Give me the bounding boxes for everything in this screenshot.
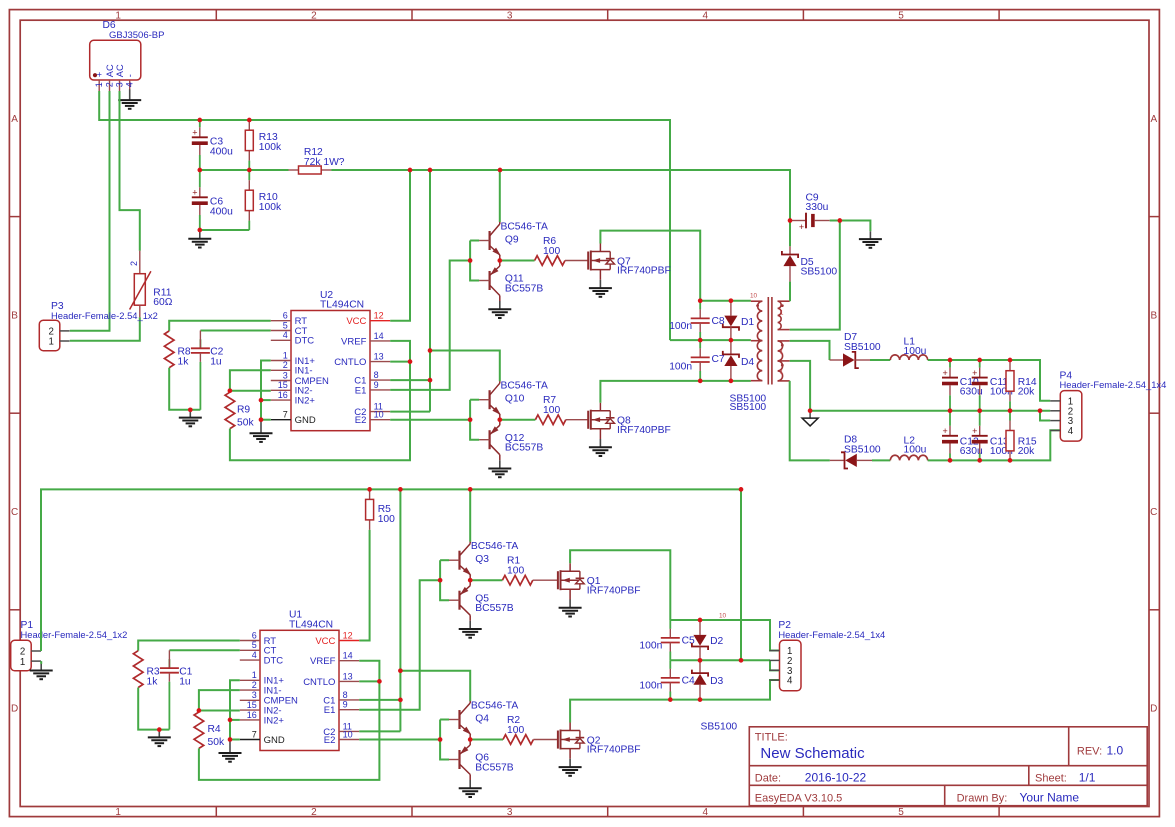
capacitor C7 [669, 340, 725, 381]
svg-text:DTC: DTC [264, 656, 284, 667]
svg-text:C4: C4 [682, 676, 695, 687]
ground at P1 pin 1 [30, 664, 53, 679]
C2 top pin wire [199, 331, 201, 349]
svg-text:100n: 100n [639, 640, 662, 651]
wire [789, 282, 791, 302]
svg-text:C5: C5 [682, 636, 695, 647]
wire [500, 260, 535, 262]
svg-text:6: 6 [252, 630, 257, 640]
svg-text:D: D [11, 704, 18, 715]
ground at Q1 source [559, 600, 582, 617]
wire [261, 361, 271, 420]
capacitor C13 [972, 411, 1013, 461]
junction [698, 379, 703, 384]
junction [729, 338, 734, 343]
junction [497, 258, 502, 263]
svg-text:SB5100: SB5100 [701, 721, 738, 732]
wire [390, 170, 410, 321]
svg-text:A: A [11, 114, 18, 125]
wire [230, 719, 240, 721]
junction [977, 408, 982, 413]
svg-text:50k: 50k [237, 417, 254, 428]
svg-text:IN2+: IN2+ [264, 715, 285, 726]
wire [600, 231, 700, 301]
junction [808, 408, 813, 413]
junction [197, 168, 202, 173]
junction [228, 737, 233, 742]
svg-text:REV:: REV: [1077, 745, 1102, 757]
svg-text:2016-10-22: 2016-10-22 [805, 770, 867, 784]
wire [570, 550, 670, 620]
ground at C6 [188, 231, 211, 248]
junction [729, 379, 734, 384]
svg-text:100: 100 [543, 405, 560, 416]
svg-text:SB5100: SB5100 [730, 402, 767, 413]
wire [440, 559, 449, 561]
svg-text:9: 9 [343, 700, 348, 710]
connector P1 (Header-Female 1x2) [11, 640, 41, 671]
wire [120, 91, 140, 251]
MOSFET Q2 (IRF740PBF) [558, 723, 641, 759]
svg-text:IRF740PBF: IRF740PBF [617, 266, 671, 277]
svg-text:8: 8 [343, 690, 348, 700]
svg-text:4: 4 [283, 330, 288, 340]
resistor R7 [535, 395, 565, 424]
wire [70, 317, 140, 340]
svg-text:D3: D3 [710, 676, 723, 687]
wire [99, 91, 670, 340]
capacitor C10 [942, 360, 983, 411]
wire [790, 381, 830, 461]
svg-text:4: 4 [125, 82, 135, 87]
junction [498, 168, 503, 173]
svg-text:GND: GND [264, 735, 285, 746]
svg-text:100n: 100n [669, 321, 692, 332]
junction [157, 727, 162, 732]
svg-text:4: 4 [1068, 426, 1074, 437]
svg-text:1: 1 [115, 807, 121, 818]
junction [788, 218, 793, 223]
junction [468, 487, 473, 492]
transformer T1 [750, 292, 790, 384]
svg-text:1: 1 [252, 670, 257, 680]
junction [259, 417, 264, 422]
wire [359, 580, 440, 710]
svg-text:1/1: 1/1 [1079, 770, 1096, 784]
junction [729, 298, 734, 303]
junction [259, 398, 264, 403]
svg-text:1u: 1u [179, 676, 191, 687]
ground at D6 pin 4 [118, 89, 141, 109]
net label 10 [719, 612, 727, 619]
svg-text:2: 2 [104, 82, 114, 87]
junction [837, 218, 842, 223]
junction [398, 487, 403, 492]
wire [429, 170, 431, 412]
wire [359, 739, 440, 741]
SB5100 labels for D1 D4 [730, 394, 767, 413]
svg-text:100n: 100n [639, 680, 662, 691]
wire [230, 390, 271, 392]
transistor Q6 (PNP BC557B) [449, 740, 514, 781]
diode D4 [723, 340, 755, 381]
wire [359, 680, 379, 682]
wire R1 to Q1 gate [533, 579, 558, 581]
junction [428, 168, 433, 173]
wire [740, 489, 742, 660]
svg-text:GND: GND [295, 415, 316, 426]
svg-text:100: 100 [507, 725, 524, 736]
svg-text:12: 12 [374, 311, 384, 321]
wire [499, 170, 501, 222]
svg-text:2: 2 [311, 807, 317, 818]
junction [1008, 408, 1013, 413]
svg-text:1.0: 1.0 [1107, 743, 1124, 757]
svg-text:Q3: Q3 [475, 554, 489, 565]
svg-text:E1: E1 [355, 385, 367, 396]
wire [390, 261, 470, 390]
junction [367, 487, 372, 492]
wire [230, 739, 240, 741]
wire [810, 410, 1050, 412]
svg-text:16: 16 [278, 390, 288, 400]
junction [428, 348, 433, 353]
junction [468, 578, 473, 583]
wire [390, 411, 430, 413]
svg-text:AC: AC [115, 64, 125, 77]
wire R6 to Q7 gate [565, 260, 588, 262]
junction [977, 358, 982, 363]
wire [440, 720, 449, 760]
ground at Q5 [459, 621, 482, 638]
wire [470, 739, 503, 741]
junction [398, 698, 403, 703]
connector P3 (Header-Female 1x2) [39, 320, 69, 351]
wire [928, 360, 1050, 401]
svg-text:Sheet:: Sheet: [1035, 772, 1067, 784]
svg-text:IN2+: IN2+ [295, 396, 316, 407]
svg-text:EasyEDA V3.10.5: EasyEDA V3.10.5 [755, 792, 842, 804]
svg-text:14: 14 [343, 651, 353, 661]
svg-text:SB5100: SB5100 [844, 444, 881, 455]
svg-text:Drawn By:: Drawn By: [957, 792, 1008, 804]
SB5100 label for D2 D3 [701, 721, 738, 732]
junction [468, 417, 473, 422]
junction [197, 228, 202, 233]
junction [398, 668, 403, 673]
wire [790, 221, 840, 330]
wire [261, 399, 271, 401]
junction [497, 417, 502, 422]
wire [169, 649, 239, 651]
signal ground at output mid-rail [802, 411, 818, 426]
svg-text:3: 3 [507, 10, 513, 21]
wire [230, 370, 271, 390]
svg-text:10: 10 [343, 729, 353, 739]
junction [408, 168, 413, 173]
svg-text:VREF: VREF [310, 656, 336, 667]
svg-text:E2: E2 [324, 735, 336, 746]
transistor Q4 (NPN BC546-TA) [449, 700, 518, 739]
resistor R5 [366, 489, 396, 530]
wire [928, 430, 1061, 460]
junction [228, 388, 233, 393]
junction [197, 118, 202, 123]
junction [377, 679, 382, 684]
diode D1 [723, 301, 755, 340]
wire [470, 400, 479, 440]
MOSFET Q7 (IRF740PBF) [588, 244, 671, 280]
svg-text:16: 16 [247, 710, 257, 720]
bridge rectifier D6 (GBJ3506-BP) [90, 20, 165, 91]
transistor Q10 (NPN BC546-TA) [479, 381, 548, 420]
svg-text:1: 1 [94, 82, 104, 87]
wire R7 to Q8 gate [566, 419, 588, 421]
junction [977, 458, 982, 463]
wire R2 to Q2 gate [533, 739, 558, 741]
IC U1 (TL494CN) [240, 610, 359, 751]
wire [400, 671, 470, 701]
wire [199, 661, 380, 780]
svg-text:B: B [11, 311, 18, 322]
capacitor C5 [639, 620, 695, 660]
svg-text:+: + [972, 368, 977, 378]
svg-text:CNTLO: CNTLO [303, 677, 335, 688]
resistor R12 [289, 147, 345, 174]
wire [331, 170, 790, 221]
wire [470, 399, 479, 401]
MOSFET Q1 (IRF740PBF) [558, 563, 641, 599]
svg-text:Header-Female-2.54_1x2: Header-Female-2.54_1x2 [51, 310, 158, 321]
resistor R15 [1006, 411, 1037, 461]
svg-text:2: 2 [129, 261, 139, 266]
wire [199, 690, 240, 710]
connector P2 (Header-Female 1x4) [769, 640, 801, 691]
svg-text:-: - [125, 74, 135, 77]
diode D5 (SB5100) [782, 246, 814, 281]
wire [469, 489, 471, 541]
D5 value label [801, 266, 838, 277]
svg-text:E1: E1 [324, 705, 336, 716]
wire [700, 300, 751, 302]
connector P4 (Header-Female 1x4) [1050, 391, 1082, 442]
ground at R8/C2 [179, 410, 202, 427]
P1 labels [21, 620, 128, 640]
svg-text:+: + [942, 368, 947, 378]
ground at Q7 source [589, 280, 612, 297]
svg-text:SB5100: SB5100 [801, 266, 838, 277]
junction [948, 358, 953, 363]
svg-text:15: 15 [247, 700, 257, 710]
svg-text:7: 7 [283, 410, 288, 420]
junction [228, 718, 233, 723]
junction [698, 298, 703, 303]
svg-text:Header-Female-2.54_1x4: Header-Female-2.54_1x4 [778, 629, 885, 640]
svg-text:D4: D4 [741, 357, 754, 368]
svg-text:100n: 100n [669, 362, 692, 373]
junction [948, 408, 953, 413]
wire [872, 459, 890, 461]
svg-text:Header-Female-2.54_1x2: Header-Female-2.54_1x2 [21, 629, 128, 640]
junction [438, 578, 443, 583]
wire [789, 221, 791, 247]
wire [359, 699, 400, 701]
wire [440, 719, 449, 721]
wire [261, 419, 271, 421]
transistor Q12 (PNP BC557B) [479, 420, 543, 461]
transistor Q5 (PNP BC557B) [449, 580, 514, 621]
wire [359, 730, 400, 732]
svg-text:9: 9 [374, 380, 379, 390]
ground at R3/C1 [148, 730, 171, 747]
capacitor C8 [669, 301, 725, 340]
wire [430, 351, 500, 382]
svg-text:TL494CN: TL494CN [320, 300, 364, 311]
svg-text:+: + [799, 222, 804, 232]
svg-text:IRF740PBF: IRF740PBF [587, 585, 641, 596]
resistor R14 [1006, 360, 1037, 411]
P4 labels [1060, 370, 1167, 390]
svg-text:CNTLO: CNTLO [334, 357, 366, 368]
wire [200, 229, 250, 231]
junction [247, 168, 252, 173]
wire [230, 680, 240, 739]
svg-text:1u: 1u [210, 357, 222, 368]
svg-text:10: 10 [750, 292, 758, 299]
svg-text:BC546-TA: BC546-TA [501, 381, 548, 392]
svg-text:2: 2 [311, 10, 317, 21]
svg-text:20k: 20k [1018, 446, 1035, 457]
wire [670, 620, 779, 651]
wire [570, 680, 779, 723]
junction [438, 737, 443, 742]
resistor R3 [133, 651, 160, 688]
svg-text:100: 100 [378, 514, 395, 525]
svg-text:100k: 100k [259, 142, 282, 153]
wire [790, 361, 810, 411]
svg-text:15: 15 [278, 380, 288, 390]
ground at Q2 source [559, 759, 582, 776]
svg-text:VREF: VREF [341, 336, 367, 347]
svg-text:TL494CN: TL494CN [289, 619, 333, 630]
svg-text:Header-Female-2.54_1x4: Header-Female-2.54_1x4 [1060, 379, 1167, 390]
capacitor C6 [192, 170, 233, 230]
svg-text:BC557B: BC557B [475, 603, 513, 614]
svg-text:E2: E2 [355, 415, 367, 426]
svg-text:1: 1 [115, 10, 121, 21]
svg-text:BC557B: BC557B [505, 284, 543, 295]
wire [70, 91, 110, 331]
wire [399, 489, 401, 731]
junction [739, 487, 744, 492]
resistor R2 [503, 715, 533, 744]
wire [41, 489, 741, 651]
wire [40, 661, 42, 664]
transistor Q3 (NPN BC546-TA) [449, 541, 518, 580]
svg-text:Q10: Q10 [505, 394, 525, 405]
capacitor C4 [639, 660, 695, 699]
svg-text:VCC: VCC [315, 636, 335, 647]
resistor R13 [245, 120, 282, 170]
svg-text:100: 100 [543, 246, 560, 257]
ground at U2 GND [250, 420, 273, 442]
MOSFET Q8 (IRF740PBF) [588, 403, 671, 439]
svg-text:BC546-TA: BC546-TA [471, 700, 518, 711]
junction [698, 618, 703, 623]
svg-text:+: + [95, 72, 105, 77]
wire [169, 321, 271, 331]
C1 top pin wire [168, 650, 170, 668]
wire [390, 361, 410, 363]
transistor Q11 (PNP BC557B) [479, 261, 543, 302]
wire [230, 341, 410, 460]
wire [770, 660, 780, 670]
junction [698, 658, 703, 663]
capacitor C3 [192, 120, 233, 170]
svg-text:3: 3 [252, 690, 257, 700]
wire [390, 419, 470, 421]
svg-text:3: 3 [114, 82, 124, 87]
ground at U1 GND [219, 740, 242, 762]
svg-text:100u: 100u [904, 445, 927, 456]
junction [247, 118, 252, 123]
diode D3 [692, 660, 724, 699]
wire [500, 419, 536, 421]
svg-text:GBJ3506-BP: GBJ3506-BP [109, 30, 164, 41]
svg-text:10: 10 [374, 410, 384, 420]
svg-text:New Schematic: New Schematic [760, 745, 865, 762]
svg-text:1: 1 [283, 350, 288, 360]
svg-text:60Ω: 60Ω [153, 297, 172, 308]
svg-text:VCC: VCC [346, 316, 366, 327]
junction [468, 737, 473, 742]
svg-text:50k: 50k [208, 737, 225, 748]
junction [197, 708, 202, 713]
svg-text:1: 1 [49, 337, 54, 348]
svg-text:100: 100 [507, 566, 524, 577]
svg-text:BC546-TA: BC546-TA [471, 541, 518, 552]
junction [1008, 458, 1013, 463]
svg-text:BC557B: BC557B [475, 763, 513, 774]
svg-text:1: 1 [20, 657, 25, 668]
IC U2 (TL494CN) [271, 290, 390, 431]
svg-text:D: D [1150, 704, 1157, 715]
svg-text:20k: 20k [1018, 387, 1035, 398]
wire [1040, 411, 1050, 421]
wire [470, 240, 479, 242]
svg-text:1k: 1k [147, 676, 159, 687]
title block [749, 727, 1147, 806]
svg-text:+: + [942, 426, 947, 436]
wire [600, 381, 751, 403]
svg-text:5: 5 [283, 320, 288, 330]
junction [698, 697, 703, 702]
svg-text:72k 1W?: 72k 1W? [304, 157, 345, 168]
svg-text:7: 7 [252, 729, 257, 739]
capacitor C2 [191, 339, 224, 410]
svg-text:14: 14 [374, 331, 384, 341]
svg-text:Date:: Date: [755, 772, 781, 784]
svg-text:6: 6 [283, 311, 288, 321]
capacitor C11 [972, 360, 1013, 411]
thermistor R11 (60 ohm) [129, 251, 173, 318]
junction [1008, 358, 1013, 363]
svg-text:8: 8 [374, 370, 379, 380]
wire [830, 221, 871, 232]
svg-text:5: 5 [898, 10, 904, 21]
svg-text:+: + [192, 188, 197, 198]
svg-text:Q4: Q4 [475, 713, 489, 724]
